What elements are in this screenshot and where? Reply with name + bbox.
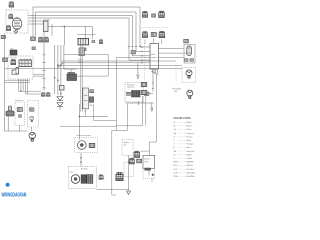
wire top bus 3 xyxy=(29,16,151,56)
CDI plug icon xyxy=(12,68,19,75)
regulator icon right xyxy=(145,92,149,95)
battery xyxy=(184,39,189,42)
carb heater dashed box xyxy=(75,137,98,152)
carb heater element xyxy=(78,141,87,150)
svg-text:unit: unit xyxy=(174,90,178,93)
wire magneto to rectifier xyxy=(29,21,44,24)
svg-text:CDI unit: CDI unit xyxy=(10,57,17,60)
diode D2 xyxy=(57,103,63,107)
headlight bulb xyxy=(187,90,193,98)
handlebar switch block xyxy=(77,34,95,36)
fuse F1 xyxy=(131,51,135,54)
wire arrow into regulator xyxy=(137,63,139,79)
CDI unit dashed box xyxy=(8,56,33,79)
svg-text:Green: Green xyxy=(187,135,194,138)
wire junction down xyxy=(52,24,92,45)
dark icon b bottom-left-center xyxy=(46,92,50,96)
svg-text:Red/Wht: Red/Wht xyxy=(187,175,196,178)
regulator icon a xyxy=(127,92,131,95)
wire switch pin to relay xyxy=(149,74,156,151)
wire W2 vertical xyxy=(116,58,127,131)
wire top bus 2 xyxy=(36,12,151,51)
wire cross h4 xyxy=(61,62,150,64)
svg-text:Handle sw: Handle sw xyxy=(15,100,24,102)
connector row1 a xyxy=(142,11,147,17)
icon below switch block xyxy=(82,48,86,51)
node junction xyxy=(79,116,81,118)
tail feed icon b xyxy=(141,90,147,94)
tail light box xyxy=(182,68,196,83)
wire diode stem xyxy=(59,107,61,111)
switch box left dashed xyxy=(15,102,25,126)
switch box right dashed xyxy=(28,101,39,128)
wire fuse bottom down xyxy=(84,109,86,116)
regulator dashed box xyxy=(125,83,144,103)
magneto assembly dashed box xyxy=(6,10,28,33)
wire cdi pins down xyxy=(19,79,28,94)
wire top bus 1 xyxy=(33,7,150,47)
flasher icon b xyxy=(39,37,43,42)
svg-text:Orange: Orange xyxy=(187,143,195,146)
resistor block center xyxy=(79,48,84,56)
wire junction cross xyxy=(80,104,109,140)
meter icon a xyxy=(184,59,188,62)
flasher icon c xyxy=(44,37,48,42)
svg-text:Brown: Brown xyxy=(187,125,194,128)
connector left edge a xyxy=(1,35,5,38)
meter light box xyxy=(184,45,195,64)
CDI magneto xyxy=(12,18,22,30)
svg-text:regulator: regulator xyxy=(127,86,135,89)
starter relay box xyxy=(143,155,155,168)
icon small left xyxy=(32,47,36,50)
svg-text:CDI: CDI xyxy=(70,172,74,174)
ground below magneto xyxy=(14,30,18,34)
svg-text:Yellow: Yellow xyxy=(187,158,193,160)
CDI connector a xyxy=(11,59,16,64)
svg-text:switch: switch xyxy=(151,56,157,59)
wire cross h5 xyxy=(58,65,182,67)
wire stair left xyxy=(94,104,117,121)
wire cross h6 xyxy=(5,67,183,69)
wire right verticals xyxy=(116,96,145,126)
bottom connector c1 xyxy=(134,151,140,157)
switch icon c xyxy=(30,108,34,111)
switch icon a xyxy=(17,108,22,112)
svg-text:WIRINGDIAGRAM: WIRINGDIAGRAM xyxy=(2,192,27,198)
horn H1 xyxy=(8,106,11,111)
ground bottom xyxy=(127,191,131,195)
wire bottom vertical xyxy=(128,155,130,191)
wire bus pins ticks xyxy=(128,45,141,47)
relay icon center xyxy=(83,94,85,96)
svg-text:Sky blue: Sky blue xyxy=(187,151,196,153)
svg-text:Choc: Choc xyxy=(187,129,192,131)
svg-text:Blk/Yel: Blk/Yel xyxy=(187,165,194,167)
svg-text:Blue/Wht: Blue/Wht xyxy=(187,171,196,174)
meter icon b xyxy=(190,59,194,62)
wire main switch right exits xyxy=(159,48,189,57)
indicator bulb xyxy=(30,116,34,122)
svg-text:Grn/Yel: Grn/Yel xyxy=(187,168,194,171)
wire horn down xyxy=(7,114,9,131)
big panel outline xyxy=(112,130,116,195)
wire cross h2 xyxy=(116,57,150,59)
carb heater icon right xyxy=(89,143,95,147)
connector left of magneto xyxy=(6,26,10,31)
wire rectifier right xyxy=(48,26,92,28)
connector row1 b xyxy=(152,14,156,17)
connector row1 c xyxy=(159,11,165,17)
tail bulb xyxy=(186,70,192,78)
wire main switch down pins xyxy=(152,69,157,74)
logo icon xyxy=(6,183,10,187)
starter icon right xyxy=(99,175,103,180)
main switch SW1 xyxy=(150,44,159,70)
node heater wire dots xyxy=(80,157,81,158)
wire dashed headlight xyxy=(175,63,177,81)
wire stair to icons xyxy=(19,91,41,94)
switch blade center xyxy=(57,63,63,68)
wire cdi to x44 horizontals xyxy=(33,74,44,76)
fuse side icon b xyxy=(89,97,94,103)
wire blob right W1 xyxy=(77,54,109,76)
svg-text:W: W xyxy=(174,154,176,156)
connector row2 b xyxy=(151,33,156,37)
connector left edge b xyxy=(3,58,8,62)
connector row2 a xyxy=(142,32,147,38)
wire x44 vertical with pins xyxy=(43,32,45,91)
svg-text:D.green: D.green xyxy=(187,132,195,135)
regulator dark blob xyxy=(132,91,141,98)
switch icon b xyxy=(18,115,21,117)
bottom mid dashed box 2 xyxy=(124,162,134,176)
starter relay dashed lower xyxy=(143,168,154,178)
bottom connector c2 xyxy=(116,173,123,181)
node stair junction xyxy=(20,91,21,92)
wire main switch entry ticks xyxy=(141,46,143,64)
fuse side icon a xyxy=(90,90,94,93)
connector inside magneto box xyxy=(9,14,13,19)
svg-text:B/W: B/W xyxy=(174,162,178,164)
CDI switch block wide xyxy=(19,60,31,67)
lower bulb xyxy=(29,132,35,141)
wire computer arrow xyxy=(126,101,154,112)
node rectifier-out junction xyxy=(64,26,65,27)
tail feed icon a xyxy=(141,82,147,86)
wire cross h3 xyxy=(61,60,176,62)
connector center blob xyxy=(68,73,75,75)
bottom icon d1 xyxy=(129,158,134,164)
svg-text:Carburetor heater: Carburetor heater xyxy=(76,134,91,137)
bottom mid dashed box 1 xyxy=(122,139,133,155)
wire cross h1 xyxy=(64,53,108,55)
svg-text:Br: Br xyxy=(174,125,176,128)
wire switch pin down long xyxy=(146,74,154,94)
svg-text:Starting: Starting xyxy=(81,168,88,171)
wire cross low xyxy=(60,125,116,127)
svg-text:White: White xyxy=(187,153,193,156)
wire from starter box xyxy=(96,189,128,191)
dark icon a bottom-left-center xyxy=(41,92,45,96)
wire boxes down xyxy=(20,126,32,132)
node center junctions xyxy=(57,64,59,66)
wire heater down xyxy=(80,153,82,167)
wire center pair down xyxy=(81,45,82,112)
svg-text:relay: relay xyxy=(144,161,148,163)
starter blob b xyxy=(81,175,86,184)
svg-text:R/W: R/W xyxy=(174,176,178,178)
wire right vertical low xyxy=(149,168,152,182)
starter motor xyxy=(71,175,80,184)
meter bulb xyxy=(187,46,192,56)
flasher icon a xyxy=(31,37,36,41)
bottom icon d2 xyxy=(137,159,142,163)
wire panel top xyxy=(112,129,117,131)
diode D1 xyxy=(57,97,63,101)
svg-text:Blk/Wht: Blk/Wht xyxy=(187,161,195,164)
rectifier R1 xyxy=(44,21,49,32)
svg-text:COLOR CODE: COLOR CODE xyxy=(173,116,191,120)
relay small dark rect xyxy=(145,168,151,170)
wire pin ticks below switch xyxy=(151,72,158,75)
switch icon far right xyxy=(99,39,103,43)
wire dashed enclosure right xyxy=(143,43,145,81)
connector top-left xyxy=(9,2,14,7)
starter blob c xyxy=(87,175,93,184)
wire dashed divider xyxy=(141,26,168,28)
switch icon right xyxy=(92,40,95,42)
wire top bus 4 xyxy=(29,18,151,60)
wire c1 right xyxy=(140,151,149,155)
node bottom junctions xyxy=(128,161,129,162)
node relay junction xyxy=(152,174,154,176)
wire blob up xyxy=(64,69,77,72)
wire left horizontals xyxy=(5,80,31,82)
svg-text:G/Y: G/Y xyxy=(174,169,178,171)
center bus wires xyxy=(55,45,64,96)
square center xyxy=(60,86,65,91)
svg-text:L/W: L/W xyxy=(174,172,178,174)
wire row2 connector stubs xyxy=(145,38,162,44)
svg-text:Main: Main xyxy=(151,54,155,56)
fuse holder tall xyxy=(83,88,89,109)
starter unit dashed box xyxy=(68,166,96,188)
connector row2 c xyxy=(159,31,165,37)
wire left long vertical xyxy=(5,33,28,131)
